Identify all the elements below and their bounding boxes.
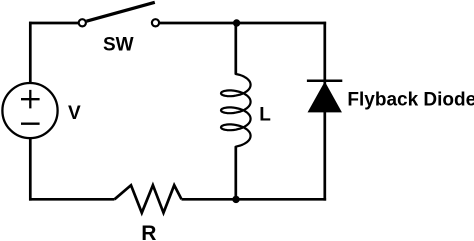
- diode cathode bar: [307, 79, 342, 82]
- junction node top (inductor/top wire): [233, 19, 240, 26]
- junction node bottom (inductor/bottom wire): [232, 196, 239, 203]
- svg-text:R: R: [141, 222, 156, 241]
- switch right terminal: [152, 19, 159, 26]
- wire top-left horizontal to switch: [29, 22, 78, 25]
- wire switch right terminal to top-right corner: [160, 22, 327, 25]
- wire inductor branch bottom lead: [234, 146, 237, 199]
- minus sign: [21, 123, 40, 125]
- resistor R: [115, 185, 182, 241]
- wire diode branch vertical: [323, 22, 326, 201]
- voltage source V: [2, 83, 81, 138]
- wire bottom horizontal resistor to corner: [182, 198, 327, 201]
- wire left vertical bottom (source to corner): [29, 139, 32, 201]
- wire bottom-left horizontal to resistor: [29, 198, 115, 201]
- source circle: [2, 83, 57, 138]
- plus sign: [21, 90, 40, 109]
- switch left terminal: [79, 19, 86, 26]
- svg-text:L: L: [259, 105, 271, 126]
- svg-text:SW: SW: [103, 34, 134, 55]
- svg-text:V: V: [68, 103, 81, 124]
- inductor L: [221, 74, 271, 147]
- diode triangle: [308, 83, 341, 112]
- switch lever: [87, 2, 155, 21]
- wire inductor branch top lead: [234, 23, 237, 75]
- flyback diode D: [307, 81, 474, 112]
- wire left vertical top (corner to source): [29, 22, 32, 83]
- svg-text:Flyback Diode: Flyback Diode: [347, 89, 474, 110]
- inductor coil: [221, 74, 251, 147]
- switch SW: [79, 2, 159, 55]
- resistor zigzag: [115, 185, 182, 213]
